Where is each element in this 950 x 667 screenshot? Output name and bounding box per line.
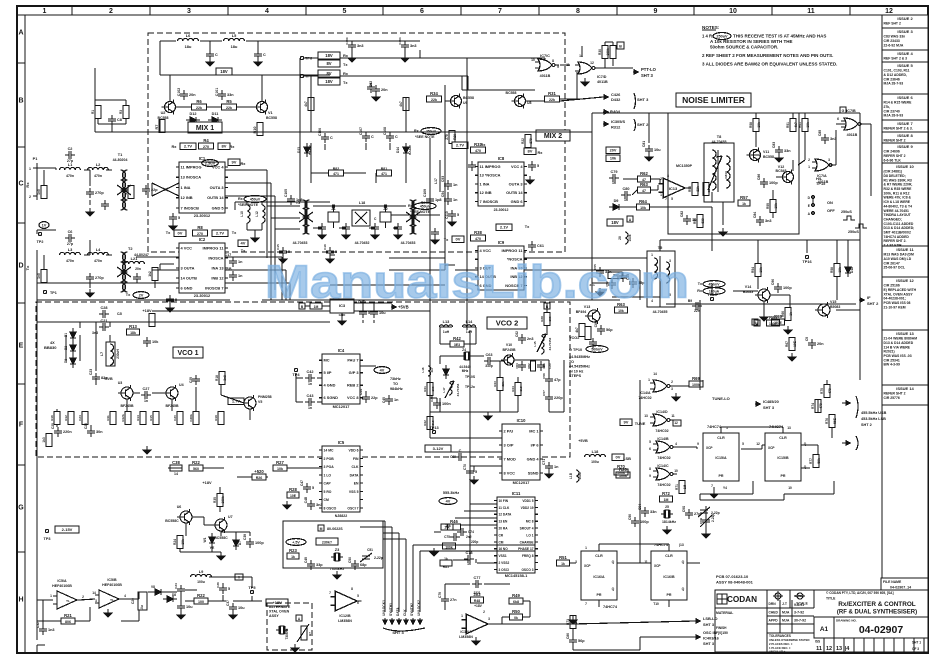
resistor R38 [471,230,486,241]
svg-text:270: 270 [529,138,533,144]
svg-text:C77: C77 [474,576,481,580]
svg-text:12 INB: 12 INB [181,195,193,200]
label TP7 8V [318,70,340,77]
svg-text:1: 1 [29,167,31,171]
svg-text:OUTB 14: OUTB 14 [207,195,224,200]
R46 box2 [441,524,453,530]
C79b lbl [438,592,442,598]
svg-text:5 I/P: 5 I/P [324,370,332,375]
svg-text:OSC IN: OSC IN [703,630,717,635]
svg-text:REFER SHT 2 & 3.: REFER SHT 2 & 3. [884,127,913,131]
svg-text:100k: 100k [221,496,225,503]
svg-text:R56: R56 [693,218,697,224]
arrow R404 [603,110,621,115]
svg-text:ISSUE 6: ISSUE 6 [897,95,913,100]
resistor R59 [770,200,776,213]
svg-text:D432: D432 [611,97,621,102]
R61 lbl [798,122,810,128]
svg-text:2V: 2V [139,293,144,298]
svg-text:NOISE LIMITER: NOISE LIMITER [682,95,745,105]
svg-text:453.5kHz LSB: 453.5kHz LSB [861,417,886,421]
C79n val [612,181,616,185]
D2 lbl [64,346,68,350]
svg-text:R24: R24 [173,539,177,545]
svg-text:THIS RECEIVE TEST IS AT 45MHz: THIS RECEIVE TEST IS AT 45MHz AND HAS [733,34,826,39]
transistor V12 [780,170,794,185]
V15 lbl [830,300,840,309]
capacitor C78b [464,551,474,563]
svg-text:CLR: CLR [665,554,673,558]
svg-text:9: 9 [649,474,651,478]
L13 val [443,330,450,334]
wire c98 wires [705,506,707,530]
svg-text:MJA 28-7-93: MJA 28-7-93 [884,82,904,86]
svg-text:1: 1 [461,614,463,618]
svg-text:V8: V8 [151,585,155,589]
svg-text:3E3: 3E3 [454,343,460,347]
svg-text:TL: TL [66,599,70,603]
capacitor Cf1 [318,223,326,233]
svg-text:11 CLK: 11 CLK [499,506,511,510]
value oval 2.5uV [202,160,219,167]
svg-text:1n: 1n [238,274,243,278]
svg-text:C9B: C9B [699,517,703,524]
svg-text:TL: TL [110,598,114,602]
osc val [286,538,338,545]
svg-text:R5: R5 [226,99,232,104]
svg-text:VCO2: VCO2 [569,336,579,340]
R71 lbl [675,484,687,490]
svg-text:CLR: CLR [779,436,787,440]
svg-text:1n: 1n [394,398,399,402]
wire TP6 rail [304,57,468,59]
T1 lbl [113,152,128,162]
resistor R20 [616,467,630,478]
svg-text:56p: 56p [578,639,585,643]
ground ic5b gnd [104,609,112,617]
svg-text:IC5/B: IC5/B [107,578,117,582]
svg-text:4: 4 [124,594,126,598]
svg-text:8: 8 [552,59,554,63]
svg-text:C: C [263,53,266,57]
resistor C38b [170,460,182,471]
unlock labels [382,600,422,624]
svg-text:10: 10 [674,469,678,473]
svg-text:3n8: 3n8 [223,375,227,381]
svg-text:1: 1 [43,8,47,15]
Rx t1 [241,161,247,166]
resistor R16 [54,412,60,425]
IC IC15/A [703,433,739,481]
resistor R21 [61,613,75,624]
svg-text:C25: C25 [51,423,55,429]
transistor U3 [118,385,133,401]
svg-text:IC485/20: IC485/20 [763,399,779,404]
label 18V nl [607,219,623,226]
resistor R22c [189,460,203,471]
svg-text:REF SHT 2: REF SHT 2 [884,22,901,26]
capacitor C83 [775,146,791,156]
svg-text:10E: 10E [793,341,797,347]
transformer T3 [299,200,313,234]
svg-text:56k: 56k [817,458,821,464]
svg-text:MC1350P: MC1350P [676,164,693,168]
svg-text:3 O/P: 3 O/P [504,442,514,447]
svg-text:C2l: C2l [117,312,122,316]
svg-text:555.3kHz: 555.3kHz [443,491,459,495]
svg-text:3: 3 [828,158,830,162]
svg-text:R62: R62 [640,171,648,176]
R70 val [617,471,625,475]
transistor U4 [163,385,178,401]
resistor R76 [829,415,835,428]
svg-text:Z4: Z4 [462,348,466,352]
arrow brace [634,93,636,131]
gate IC14/C [653,468,677,480]
svg-text:B: B [619,45,622,49]
C43 val [308,406,312,410]
C66 lbl [542,373,546,379]
C98 lbl [699,514,715,527]
svg-text:20n: 20n [189,93,196,97]
IC IC1 [176,156,228,218]
svg-text:471: 471 [333,172,339,176]
33n lbl [589,283,607,292]
svg-text:HEF40106B: HEF40106B [52,584,72,588]
svg-text:10k: 10k [757,122,761,128]
svg-text:100k: 100k [445,546,453,550]
resistor R3e [123,106,129,119]
R8 val [197,232,203,236]
svg-text:22n: 22n [694,309,700,313]
+18V u6 [202,480,212,485]
svg-text:2: 2 [671,380,673,384]
svg-text:TP10S: TP10S [465,375,476,379]
IC14A lbl [638,372,673,400]
label TP7 18V [318,78,340,85]
svg-text:2.5uV: 2.5uV [205,160,216,165]
C32 lbl [36,622,40,628]
svg-text:CLR: CLR [717,436,725,440]
svg-text:R42: R42 [423,420,427,426]
C86n lbl [757,174,761,180]
svg-text:R1: R1 [91,110,95,114]
LSBLO lbl [703,616,717,627]
svg-text:APPD: APPD [769,619,779,623]
svg-text:XCP: XCP [584,564,591,568]
USB text [861,411,887,427]
svg-text:R11: R11 [106,415,110,421]
CODAN logo [715,590,767,608]
filter mid lbl [355,241,370,245]
V10 lbl [502,343,516,352]
svg-text:BC558C: BC558C [214,536,228,540]
svg-text:R23: R23 [289,548,297,553]
svg-text:C28: C28 [101,306,108,310]
svg-text:DATA: DATA [350,473,359,477]
svg-text:L10: L10 [240,211,244,217]
label IC1 8V [218,143,230,150]
svg-text:R34: R34 [430,91,438,96]
svg-text:8V: 8V [222,144,227,149]
resistor R6 [192,99,207,110]
svg-text:74HC74: 74HC74 [707,425,722,429]
svg-text:R55: R55 [688,186,692,192]
svg-text:47: 47 [642,189,646,193]
wire ic11 stubs [434,504,497,563]
svg-text:1n: 1n [238,260,243,264]
ground nl gnd [719,228,727,236]
svg-text:04-02907_14: 04-02907_14 [890,586,911,590]
capacitor C96 [631,517,649,527]
title block outline [715,574,928,652]
IC IC9 [475,240,527,290]
svg-text:12: 12 [674,421,678,425]
svg-text:MJA: MJA [782,611,790,615]
svg-text:D: D [18,263,23,270]
svg-text:C84?: C84? [724,171,728,179]
C2 val [67,159,74,163]
svg-text:8V: 8V [326,61,331,66]
svg-text:74HC02: 74HC02 [657,483,670,487]
svg-text:56p: 56p [606,328,613,332]
wire ic10 stubs [430,438,502,472]
resistor R15 [153,412,159,425]
svg-text:2: 2 [808,158,810,162]
D7 lbl [238,541,242,545]
IC7A lbl [808,158,830,184]
svg-text:630: 630 [701,218,705,224]
svg-text:1: 1 [808,165,810,169]
transistor V5 [241,395,256,411]
R22d val [198,600,204,604]
C108 lbl [383,127,387,135]
svg-text:BF245B: BF245B [502,348,516,352]
svg-text:100k: 100k [619,474,627,478]
svg-text:18V: 18V [325,79,333,84]
C107 lbl [359,127,363,135]
ground gnd C11 [254,58,262,66]
svg-text:REF SHT 2 & 3: REF SHT 2 & 3 [884,57,908,61]
capacitor C85 [821,134,837,144]
svg-text:BW 4-3-99: BW 4-3-99 [884,363,901,367]
svg-text:ANGULAR ±: ANGULAR ± [769,650,786,654]
capacitor C55 [596,267,612,277]
capacitor C22 [142,185,158,195]
svg-text:10E: 10E [290,494,297,498]
svg-text:7 MOD: 7 MOD [504,456,517,461]
svg-text:R42: R42 [453,336,461,341]
svg-text:PR: PR [719,474,724,478]
svg-text:1814kHz: 1814kHz [662,520,676,524]
svg-text:8: 8 [649,467,651,471]
TP7 Rx2 [343,71,349,76]
C84b lbl [753,212,757,218]
capacitor C28v [99,306,109,318]
R75r lbl [820,388,832,394]
svg-text:R46: R46 [450,519,458,524]
svg-text:C71: C71 [542,459,546,465]
R50 val [514,616,518,620]
svg-text:1n: 1n [554,465,559,469]
label IC9 0V [452,236,464,243]
svg-text:1: 1 [648,378,650,382]
capacitor C34b [177,602,193,612]
svg-text:Rx: Rx [25,182,30,188]
C426 lbl [611,92,649,102]
capacitor C18b [133,273,141,283]
svg-text:5: 5 [312,486,314,490]
wire IC9 wires [448,192,560,270]
svg-text:20n: 20n [817,342,824,346]
svg-text:SHT 2: SHT 2 [867,301,879,306]
ground C110 gnd [448,218,456,226]
svg-text:PNM258: PNM258 [258,395,272,399]
resistor R12 [68,412,74,425]
R26 lbl [445,134,457,140]
C85 lbl [818,130,822,136]
svg-text:R51: R51 [559,555,567,560]
wire IC15 feedback [700,481,834,500]
wire top rail caps wires [330,41,420,55]
C64 lbl [515,363,519,369]
capacitor C80 [621,187,631,199]
svg-text:470n: 470n [66,174,74,178]
svg-text:5: 5 [457,213,459,217]
resistor R66 [785,308,791,321]
svg-text:ISSUE 4: ISSUE 4 [897,51,913,56]
capacitor C104t [401,41,417,51]
svg-text:8V: 8V [528,149,533,154]
svg-text:470n: 470n [94,259,102,263]
capacitor C8e [108,115,122,125]
svg-text:3n3: 3n3 [410,44,417,48]
svg-text:L18: L18 [592,449,600,454]
svg-text:C85: C85 [818,130,822,136]
R43 lbl [493,381,505,387]
capacitor D9c [692,302,702,310]
svg-text:3: 3 [488,617,490,621]
sq box A3 [754,320,760,326]
svg-text:F: F [19,422,24,429]
R66 lbl [781,311,793,317]
capacitor C47 [303,483,314,493]
R box [296,615,302,621]
C90 lbl [771,279,775,285]
svg-text:IMPROG 11: IMPROG 11 [203,245,225,250]
svg-text:C47: C47 [300,480,304,486]
svg-text:10u: 10u [140,605,144,611]
svg-text:D9: D9 [614,199,619,203]
svg-text:R58: R58 [749,122,753,128]
L17 [434,170,440,192]
C95 lbl [682,506,686,512]
capacitor C37 [229,603,245,613]
svg-text:C49: C49 [304,557,308,563]
C38b val [174,472,178,476]
U8 lbl [506,91,532,105]
Z3 lbl [330,567,345,571]
wire IC7 wiring [462,42,633,101]
svg-text:L7: L7 [100,352,104,356]
svg-text:44-70453: 44-70453 [293,241,308,245]
resistor R77 [813,455,819,468]
capacitor C67 [545,393,563,403]
resistor R49 [509,593,523,604]
label IC2 2.7V [212,230,228,237]
svg-text:C16: C16 [323,244,327,250]
IC13 lbl [660,174,678,201]
73-984 lbls [390,377,403,391]
svg-text:R58: R58 [830,267,834,273]
IC14D lbl [644,410,678,433]
svg-text:5: 5 [357,594,359,598]
resistor R22d [194,593,208,604]
svg-text:4: 4 [675,442,677,446]
capacitor C53 [444,180,458,190]
capacitor C29 [192,375,200,385]
C78b val [467,562,471,566]
svg-text:450uV: 450uV [420,205,431,209]
ground c55 gnd [596,288,604,296]
svg-text:MC145158-1: MC145158-1 [505,573,528,578]
svg-text:L17: L17 [434,178,438,184]
svg-text:10k: 10k [181,539,185,545]
svg-text:984kHz: 984kHz [390,387,403,391]
74HC74 d lbl [769,425,784,429]
diode D2 [70,341,76,355]
diode D7 [233,536,239,550]
svg-text:IC5: IC5 [338,440,345,445]
capacitor C70 [466,467,477,477]
C36 lbl [216,582,220,588]
R42b lbl [423,420,435,426]
svg-text:CLK: CLK [352,465,360,469]
resistor R18 [219,372,225,385]
svg-text:1n: 1n [144,399,148,403]
R62 val [642,178,646,182]
+18V vco [142,308,152,313]
svg-text:VCO 1: VCO 1 [177,350,198,357]
resistor R70 [614,464,628,475]
capacitor C3 [86,188,104,198]
ground vco1 gnd [143,446,151,454]
svg-text:ASSY 08-04048-001: ASSY 08-04048-001 [716,580,754,585]
svg-text:VDD1 5: VDD1 5 [522,499,533,503]
svg-text:2n2: 2n2 [466,535,472,539]
svg-text:13 INOSCA: 13 INOSCA [181,175,202,180]
sq box b1 [617,42,624,49]
crystal Z osc [276,626,288,634]
D13 lbl [297,145,312,155]
svg-text:3 POA: 3 POA [324,465,335,469]
svg-text:BF494: BF494 [576,310,587,314]
svg-text:TITLE: TITLE [826,597,836,601]
svg-text:13: 13 [836,646,842,652]
svg-text:INOSCB 7: INOSCB 7 [205,285,223,290]
C101 lbl [215,88,219,96]
svg-text:C27: C27 [143,387,150,391]
svg-text:+18V: +18V [202,480,212,485]
svg-text:3n3: 3n3 [316,503,323,507]
IC IC4 [319,348,363,409]
L12 [255,205,265,223]
svg-text:C: C [18,181,23,188]
D3 lbl [64,359,68,363]
svg-text:7: 7 [585,602,587,606]
IC IC10 [499,418,543,485]
svg-text:3: 3 [187,8,191,15]
